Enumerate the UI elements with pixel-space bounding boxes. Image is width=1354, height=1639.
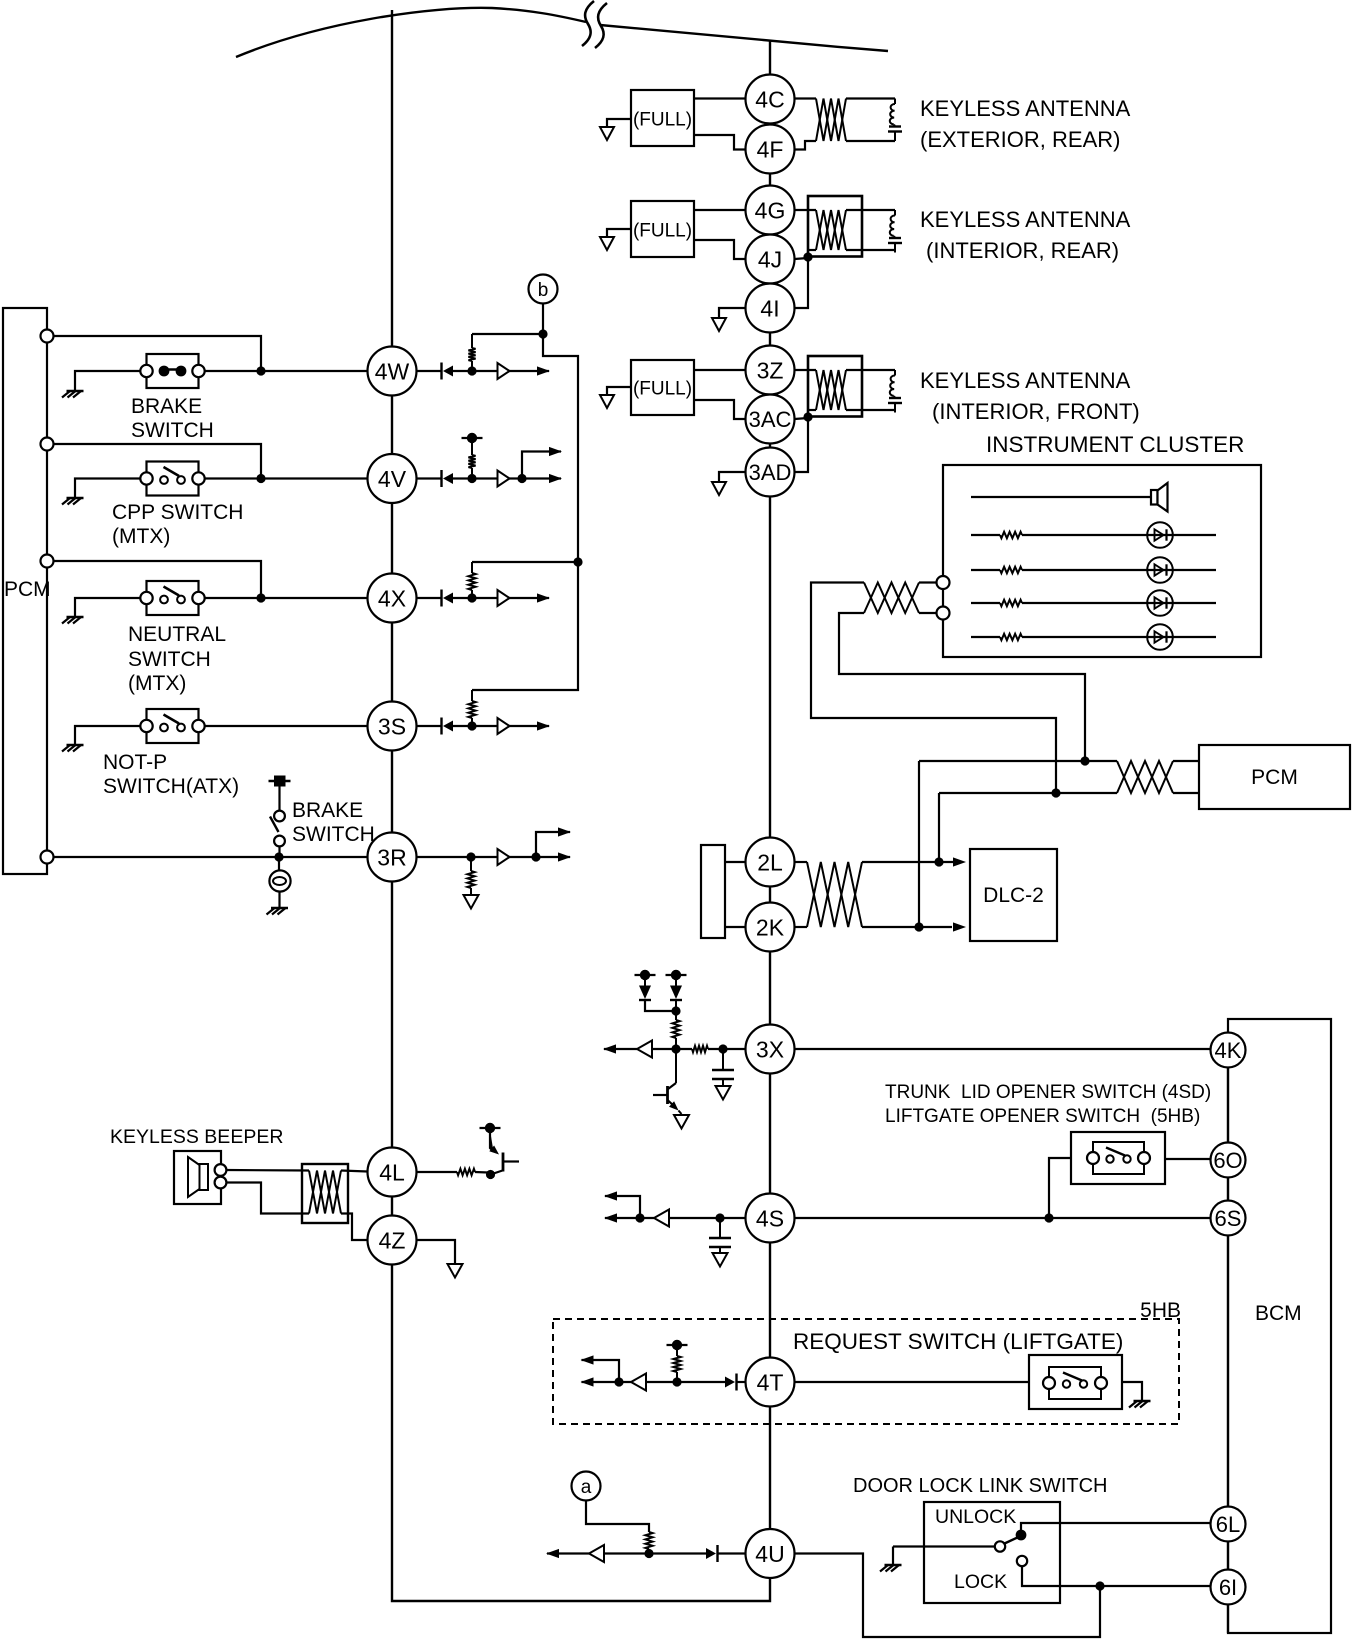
svg-text:4J: 4J [758, 246, 782, 272]
wire 4U output [546, 1549, 589, 1558]
svg-text:KEYLESS BEEPER: KEYLESS BEEPER [110, 1126, 283, 1148]
module box (FULL) #2 [631, 201, 694, 257]
chassis ground neutral [62, 617, 84, 624]
ground arrow 3X transistor [674, 1115, 689, 1129]
resistor 3R pull-down [467, 857, 474, 895]
wire 6O to 6S [1227, 1178, 1229, 1201]
chassis ground NOT-P [62, 745, 84, 752]
ground arrow 3X cap [716, 1086, 731, 1100]
wire request switch ground [1122, 1382, 1142, 1401]
svg-text:4C: 4C [755, 86, 784, 112]
svg-text:3AD: 3AD [749, 460, 792, 485]
connector 3R [368, 833, 417, 882]
buffer 4V [498, 471, 510, 487]
junction 4T resistor [672, 1377, 681, 1386]
wire (FULL)#3 to 3AC [694, 400, 746, 419]
diode 4T [725, 1374, 737, 1391]
junction 4U resistor [644, 1549, 653, 1558]
wire door lock common [893, 1545, 995, 1547]
request switch dashed box [553, 1319, 1179, 1424]
resistor 3S pull-up [468, 690, 475, 722]
wire CPP ground lead [75, 479, 141, 499]
wire PCM K-line lower [939, 792, 1117, 794]
ground at (FULL)#1 [600, 127, 614, 140]
wire 4X resistor to bus [472, 561, 578, 563]
wire (FULL)#3 ground lead [607, 387, 631, 395]
resistor cluster row 1 [1000, 532, 1022, 538]
junction trunk on 4S line [1044, 1213, 1053, 1222]
wire 4G to pair #2 [795, 209, 817, 211]
wire diode to buffer 4X [453, 597, 498, 599]
wire (FULL)#3 to 3Z [694, 369, 746, 371]
connector 3X [746, 1025, 795, 1074]
svg-text:PCM: PCM [1251, 766, 1298, 789]
svg-text:6I: 6I [1219, 1575, 1237, 1600]
door lock lock contact [1017, 1556, 1027, 1566]
wire pair to 4L [341, 1171, 368, 1172]
wire upper K-line to 2K [918, 761, 920, 927]
wire 3R to buffer [417, 856, 498, 858]
wire PCM to CPP line [54, 444, 262, 479]
LED indicator row 3 [1022, 590, 1216, 616]
svg-text:4I: 4I [760, 295, 779, 321]
connector bar 2L/2K [701, 845, 725, 938]
wire 3X output arrow [603, 1044, 637, 1053]
wire (FULL)#2 ground lead [607, 229, 631, 237]
junction 4X resistor [467, 593, 476, 602]
svg-text:4U: 4U [755, 1541, 784, 1567]
wire lock to 6I [1022, 1566, 1211, 1586]
label keyless antenna interior rear [920, 207, 1131, 263]
LED indicator row 2 [1022, 557, 1216, 583]
svg-text:LIFTGATE OPENER SWITCH (5HB): LIFTGATE OPENER SWITCH (5HB) [885, 1106, 1200, 1127]
wire bar to 2L [725, 861, 746, 863]
label instrument cluster [986, 432, 1244, 457]
wire 4T output [581, 1377, 632, 1386]
wire 4S branch arrow [604, 1191, 640, 1218]
diode 3X right [670, 978, 682, 1011]
brake switch SW1 [140, 354, 204, 388]
wire 4V to diode [417, 477, 442, 479]
diode 3X left [639, 978, 651, 1000]
connector 3AC [746, 395, 795, 444]
wire 6L to 6I [1227, 1542, 1229, 1570]
wire 3R output [510, 852, 572, 861]
svg-text:6L: 6L [1216, 1512, 1240, 1537]
wire shield to 3AD [795, 417, 809, 472]
wire pair to DLC-2 lower [862, 922, 966, 931]
wire 3X left segment [708, 1048, 746, 1050]
svg-text:DLC-2: DLC-2 [983, 884, 1044, 907]
svg-text:(FULL): (FULL) [633, 379, 692, 400]
resistor 4V pull-up [468, 438, 475, 474]
brake switch 2 contacts [270, 811, 285, 847]
door lock switch box [924, 1502, 1060, 1603]
wire 4U diode segment [718, 1552, 746, 1554]
svg-text:4S: 4S [756, 1205, 784, 1231]
ground at 4I [712, 318, 726, 331]
connector 4K [1211, 1033, 1246, 1068]
connector 4V [368, 454, 417, 503]
connector 6L [1211, 1507, 1246, 1542]
wire 4J to shield [795, 258, 809, 259]
wire 4U diode to buffer [604, 1552, 706, 1554]
junction 3X cap [718, 1044, 727, 1053]
PCM terminal row2 [41, 438, 54, 451]
label PCM (left) [4, 578, 51, 601]
beeper speaker symbol [188, 1157, 208, 1197]
twisted pair beeper [309, 1171, 341, 1214]
ground at (FULL)#3 [600, 395, 614, 408]
junction 3R brake [274, 852, 283, 861]
wire 4C to twisted pair [795, 97, 817, 99]
wire beeper upper to pair [226, 1169, 309, 1172]
resistor 4L base [457, 1169, 475, 1175]
wire 4X to diode [417, 597, 442, 599]
connector 2L [746, 838, 795, 887]
connector 4T [746, 1358, 795, 1407]
twisted pair antenna #1 [816, 99, 846, 142]
svg-text:3X: 3X [756, 1036, 784, 1062]
junction 3R resistor [466, 852, 475, 861]
wire 4L to resistor [417, 1171, 458, 1173]
label BCM [1255, 1302, 1302, 1325]
wire pair to PCM box [1173, 761, 1199, 793]
junction node b [538, 329, 547, 338]
resistor 3X line [692, 1046, 708, 1052]
svg-text:CPP SWITCH: CPP SWITCH [112, 501, 243, 524]
wire pair to 4Z [341, 1214, 368, 1241]
wire neutral ground lead [75, 598, 141, 617]
wire 4I ground lead [719, 308, 746, 318]
neutral switch SW3 [140, 581, 204, 615]
wire 3X resistor to buffer [652, 1048, 692, 1050]
wire 3X to 4K [795, 1048, 1211, 1050]
connector 4G [746, 186, 795, 235]
wire (FULL)#2 to 4J [694, 240, 746, 259]
wire 4V branch arrow [522, 447, 562, 479]
wire node b to bus [472, 334, 578, 690]
resistor 4U [645, 1532, 652, 1553]
ground arrow 4S cap [713, 1253, 728, 1267]
wire NOT-P ground lead [75, 726, 141, 745]
junction 4T branch [614, 1377, 623, 1386]
wire bar to 2K [725, 926, 746, 928]
chassis ground CPP [62, 498, 84, 505]
connector 4I [746, 284, 795, 333]
diode 4U [706, 1545, 718, 1562]
svg-text:(MTX): (MTX) [128, 672, 186, 695]
wire cluster LED row 1 left [971, 534, 1000, 536]
wire 3R branch arrow [536, 827, 571, 857]
junction 3S resistor [467, 721, 476, 730]
svg-text:4L: 4L [379, 1159, 405, 1185]
supply stub 4L transistor [480, 1123, 501, 1133]
resistor 4X pull-up [468, 562, 475, 594]
svg-text:(FULL): (FULL) [633, 110, 692, 131]
chassis ground stop lamp [267, 908, 289, 915]
svg-text:4G: 4G [755, 197, 786, 223]
wire cluster LED row 3 left [971, 602, 1000, 604]
wire 4W to diode [417, 370, 442, 372]
wire NOT-P to 3S [205, 725, 368, 727]
svg-text:3AC: 3AC [749, 407, 792, 432]
wire harness curve (left section) [236, 8, 586, 57]
connector 4C [746, 75, 795, 124]
resistor cluster row 3 [1000, 600, 1022, 606]
wire node b drop [542, 304, 544, 335]
diode 4W [442, 363, 454, 380]
label CPP switch [112, 501, 243, 548]
junction at 2K line [914, 922, 923, 931]
wire 4S output [604, 1213, 654, 1222]
wire diode to buffer 4W [453, 370, 498, 372]
wire trunk switch to 4S line [1049, 1158, 1071, 1218]
connector 4X [368, 574, 417, 623]
transistor Q1 3X [653, 1049, 682, 1114]
PCM box (right) [1199, 745, 1350, 809]
wire 6S to 6L [1227, 1236, 1229, 1507]
label trunk lid opener switch [885, 1082, 1211, 1127]
wire cluster LED row 4 left [971, 636, 1000, 638]
junction neutral line [256, 593, 265, 602]
svg-text:SWITCH: SWITCH [128, 648, 211, 671]
wire cluster buzzer row [971, 496, 1151, 498]
resistor 4T pull-up [673, 1345, 680, 1378]
label brake switch [131, 395, 214, 442]
buffer 3R [498, 849, 510, 865]
svg-text:(FULL): (FULL) [633, 221, 692, 242]
junction 4W resistor [467, 366, 476, 375]
svg-text:2K: 2K [756, 914, 785, 940]
svg-text:KEYLESS ANTENNA: KEYLESS ANTENNA [920, 96, 1131, 121]
wire 3Z to pair #3 [795, 369, 817, 371]
NOT-P switch SW4 [140, 709, 204, 743]
wire right keyless-unit bus [769, 41, 771, 1529]
label brake switch 2 [292, 799, 375, 846]
wire pair#3 bottom-left stub [808, 409, 816, 411]
svg-text:4T: 4T [757, 1369, 784, 1395]
wire diode to buffer 4V [453, 477, 498, 479]
svg-text:(MTX): (MTX) [112, 525, 170, 548]
wire 4T to request switch [795, 1381, 1030, 1383]
svg-text:3S: 3S [378, 713, 406, 739]
wire lower K-line to 2L [938, 793, 940, 862]
svg-text:NEUTRAL: NEUTRAL [128, 623, 226, 646]
wire 3S output [510, 721, 551, 730]
svg-text:NOT-P: NOT-P [103, 751, 167, 774]
wire cluster pair lower run [839, 613, 1085, 761]
LED indicator row 4 [1022, 624, 1216, 650]
label neutral switch [128, 623, 226, 695]
svg-text:b: b [538, 280, 549, 301]
wire lamp to ground [278, 892, 280, 909]
battery stub brake switch 2 [269, 776, 291, 787]
antenna coil/cap #2 [888, 210, 902, 253]
connector 6S [1211, 1201, 1246, 1236]
diode 3S [442, 718, 454, 735]
twisted pair antenna #2 [816, 210, 846, 250]
wire PCM K-line upper [919, 760, 1117, 762]
wire 4S left segment [669, 1217, 746, 1219]
chassis ground request switch [1129, 1401, 1151, 1408]
wire 4T diode to buffer [646, 1381, 725, 1383]
shield box beeper [302, 1164, 348, 1223]
beeper terminal lower [215, 1177, 227, 1189]
wire beeper lower to pair [226, 1183, 309, 1214]
wire neutral to 4X [205, 597, 368, 599]
PCM terminal row3 [41, 555, 54, 568]
wire PCM to 3R [54, 856, 368, 858]
svg-text:SWITCH(ATX): SWITCH(ATX) [103, 775, 239, 798]
svg-text:LOCK: LOCK [954, 1571, 1007, 1593]
label LOCK [954, 1571, 1007, 1593]
junction CPP line [256, 474, 265, 483]
antenna coil/cap #3 [888, 370, 902, 413]
wire node a to resistor [586, 1501, 649, 1533]
svg-text:BRAKE: BRAKE [131, 395, 202, 418]
label NOT-P switch [103, 751, 239, 798]
wire harness curve (right section) [600, 25, 888, 51]
shield box antenna #2 [808, 196, 862, 257]
svg-text:KEYLESS ANTENNA: KEYLESS ANTENNA [920, 207, 1131, 232]
label keyless beeper [110, 1126, 283, 1148]
wire 4V output [510, 474, 563, 483]
junction lower run at PCM upper wire [1080, 756, 1089, 765]
wire 4X output [510, 593, 551, 602]
wire pair to antenna coil #2 [846, 210, 895, 250]
wire 4W output arrow [510, 366, 551, 375]
svg-text:(INTERIOR, FRONT): (INTERIOR, FRONT) [932, 399, 1140, 424]
shield box antenna #3 [808, 356, 862, 417]
wire brake switch to 4W [205, 370, 368, 372]
wire pair to antenna coil #1 [846, 99, 895, 142]
wire 2K to pair [795, 926, 808, 928]
wire (FULL)#2 to 4G [694, 209, 746, 211]
wire to stop lamp [278, 857, 280, 871]
wire PCM to neutral line [54, 561, 262, 598]
ground at 3AD [712, 482, 726, 495]
wire (FULL)#1 ground lead [607, 119, 631, 127]
diode 4X [442, 590, 454, 607]
door lock lever [1005, 1538, 1018, 1544]
junction 4S cap [715, 1213, 724, 1222]
transistor Q2 4L [486, 1130, 519, 1179]
svg-text:4F: 4F [757, 136, 784, 162]
svg-text:INSTRUMENT CLUSTER: INSTRUMENT CLUSTER [986, 432, 1244, 457]
wire PCM to brake-switch line [54, 336, 262, 371]
connector 2K [746, 903, 795, 952]
door lock unlock contact [1016, 1530, 1027, 1541]
buffer 4W [498, 363, 510, 379]
ground at (FULL)#2 [600, 237, 614, 250]
module box (FULL) #3 [631, 360, 694, 415]
buffer 4U [589, 1545, 604, 1562]
wire 4K to 6O [1227, 1068, 1229, 1143]
CPP switch SW2 [140, 462, 204, 496]
twisted pair PCM [1117, 761, 1173, 793]
svg-text:DOOR LOCK LINK SWITCH: DOOR LOCK LINK SWITCH [853, 1475, 1107, 1497]
capacitor 3X [712, 1049, 734, 1086]
wire 2L to pair [795, 861, 808, 863]
svg-text:6O: 6O [1213, 1148, 1242, 1173]
junction 4V resistor [467, 474, 476, 483]
buffer 3X [637, 1041, 652, 1058]
label keyless antenna exterior rear [920, 96, 1131, 152]
wire (FULL)#1 to 4C [694, 97, 746, 99]
connector 4F [746, 125, 795, 174]
svg-text:4W: 4W [375, 358, 410, 384]
PCM box (left) [3, 308, 47, 874]
wire 4S to 6S [795, 1217, 1211, 1219]
wire CPP to 4V [205, 477, 368, 479]
keyless beeper box [174, 1151, 221, 1204]
svg-text:BRAKE: BRAKE [292, 799, 363, 822]
wire cluster terminals to pair [919, 583, 937, 614]
wire switch to 3R line [278, 847, 280, 858]
buffer 4S [654, 1210, 669, 1227]
resistor cluster row 4 [1000, 634, 1022, 640]
label request switch [793, 1329, 1123, 1354]
connector 6I [1211, 1570, 1246, 1605]
svg-text:(EXTERIOR, REAR): (EXTERIOR, REAR) [920, 127, 1120, 152]
wire cluster pair upper run [811, 583, 1056, 794]
harness break squiggle 2 [595, 3, 607, 48]
ground arrow 3R [464, 895, 479, 909]
trunk opener switch SW5 [1087, 1142, 1150, 1174]
PCM terminal row1 [41, 330, 54, 343]
wire left keyless-unit bus [392, 10, 770, 1601]
svg-text:6S: 6S [1215, 1206, 1242, 1231]
junction shield #3 [803, 412, 812, 421]
label door lock link switch [853, 1475, 1107, 1497]
LED indicator row 1 [1022, 522, 1216, 548]
supply stub 4T [667, 1340, 688, 1350]
request switch SW6 [1043, 1367, 1107, 1399]
chassis ground door lock [880, 1565, 902, 1572]
connector 4W [368, 347, 417, 396]
resistor 4W pull-up [468, 334, 475, 367]
wire common ground lead [892, 1547, 894, 1566]
antenna coil/cap #1 [888, 99, 902, 142]
connector 3AD [746, 448, 795, 497]
stop lamp [269, 870, 290, 891]
svg-text:SWITCH: SWITCH [131, 419, 214, 442]
wire 4F to twisted pair [795, 141, 817, 150]
wire 6I to box bottom [1227, 1605, 1229, 1634]
supply stub 3X right diode [666, 970, 687, 980]
svg-text:REQUEST SWITCH (LIFTGATE): REQUEST SWITCH (LIFTGATE) [793, 1329, 1123, 1354]
junction 4X tap [573, 557, 582, 566]
wire 4U to door lock switch [795, 1554, 1101, 1638]
request switch box [1029, 1355, 1122, 1409]
wire shield to 4I [795, 257, 809, 308]
twisted pair antenna #3 [816, 370, 846, 410]
connector 6O [1211, 1143, 1246, 1178]
connector 4J [746, 235, 795, 284]
svg-text:4K: 4K [1215, 1038, 1242, 1063]
svg-text:UNLOCK: UNLOCK [935, 1506, 1016, 1528]
svg-text:3Z: 3Z [757, 357, 784, 383]
svg-text:BCM: BCM [1255, 1302, 1302, 1325]
connector 4U [746, 1529, 795, 1578]
buffer 4X [498, 590, 510, 606]
label UNLOCK [935, 1506, 1016, 1528]
trunk opener switch box [1071, 1132, 1165, 1184]
harness break squiggle 1 [582, 1, 594, 46]
wire trunk switch to 6O [1165, 1158, 1211, 1160]
wire pair to antenna coil #3 [846, 370, 895, 410]
